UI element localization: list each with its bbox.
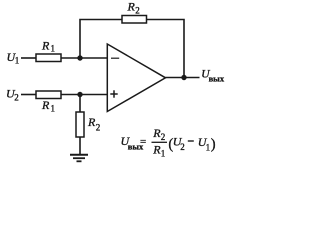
svg-text:2: 2 (161, 132, 166, 142)
wire output stub (166, 77, 200, 79)
resistor R1 bottom (36, 91, 61, 99)
ground (70, 155, 88, 162)
svg-text:1: 1 (15, 56, 19, 66)
svg-text:1: 1 (51, 103, 56, 113)
wire U2 input (21, 94, 36, 96)
wire R2 to ground (79, 137, 81, 155)
resistor R2 feedback (122, 16, 147, 24)
output node dot (181, 75, 186, 80)
svg-text:вых: вых (209, 74, 225, 84)
svg-text:R: R (87, 115, 96, 129)
op-amp U1 (107, 44, 165, 112)
wire R1 to op-amp inverting input (61, 57, 107, 59)
node A junction dot (77, 55, 82, 60)
svg-text:=: = (140, 136, 146, 148)
formula U_vyh = R2/R1 (U2 - U1) (121, 126, 216, 159)
svg-text:): ) (211, 136, 216, 152)
wire feedback left vertical (80, 20, 122, 59)
svg-text:2: 2 (135, 5, 140, 15)
svg-text:2: 2 (180, 142, 185, 152)
svg-text:R: R (127, 0, 136, 14)
resistor R1 top (36, 54, 61, 62)
svg-text:1: 1 (51, 44, 56, 54)
op-amp minus sign (111, 57, 119, 59)
wire node B down to R2 (79, 95, 81, 113)
op-amp plus sign (110, 90, 117, 97)
svg-text:1: 1 (206, 143, 211, 153)
svg-text:2: 2 (14, 92, 18, 102)
svg-text:1: 1 (161, 149, 166, 159)
svg-text:R: R (41, 39, 50, 53)
node B junction dot (77, 92, 82, 97)
svg-text:2: 2 (96, 123, 101, 133)
wire feedback right to output node (147, 20, 185, 78)
svg-text:R: R (41, 98, 50, 112)
resistor R2 vertical (76, 112, 84, 137)
wire U1 input (21, 57, 36, 59)
wire R1 to op-amp non-inverting input (61, 94, 107, 96)
